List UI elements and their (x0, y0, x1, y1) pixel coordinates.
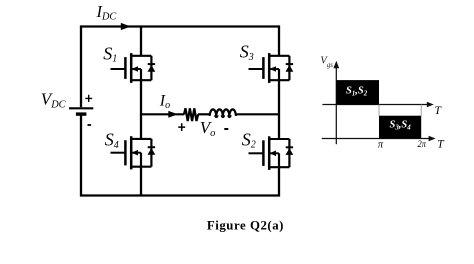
transistor S1 gate lead (111, 68, 126, 70)
wire left leg S1 source to S4 drain (140, 80, 142, 139)
pulse S3,S4 bar (379, 116, 421, 139)
transistor S2 body arrow line (269, 152, 279, 154)
waveform upper T axis (322, 104, 428, 106)
svg-text:2π: 2π (418, 139, 427, 150)
diode of S2 triangle (286, 148, 294, 155)
waveform upper T axis arrowhead (427, 102, 434, 107)
diode of S3 cathode bar (286, 63, 293, 65)
transistor S2 gate lead (249, 152, 264, 154)
transistor S1 channel bar (130, 53, 133, 83)
inductor L lower loops (215, 115, 231, 117)
diode of S4 cathode bar (148, 146, 155, 148)
transistor S2 source tap (278, 153, 280, 167)
transistor S4 channel bar (130, 136, 133, 169)
wire inductor to right leg (236, 113, 279, 115)
label minus of Vo (224, 128, 228, 130)
battery VDC long plate (69, 107, 93, 109)
transistor S3 source tap (278, 69, 280, 80)
wire resistor to inductor (198, 113, 210, 115)
wire right leg S3 source to S2 drain (278, 80, 280, 139)
diode of S3 triangle (286, 65, 294, 72)
pulse S1,S2 bar (336, 80, 379, 104)
waveform lower T axis (322, 138, 430, 140)
transistor S3 drain edge (269, 55, 289, 57)
arrow IDC on top wire (121, 23, 131, 30)
transistor S4 drain edge (131, 138, 151, 140)
wire left leg S4 source to bottom (140, 167, 142, 196)
transistor S1 gate bar (124, 57, 127, 79)
battery VDC short plate (76, 112, 87, 115)
wire bottom rail with left and right risers (81, 114, 279, 196)
transistor S3 source edge (269, 79, 289, 81)
transistor S4 gate lead (111, 152, 126, 154)
transistor S4 body arrowhead (132, 150, 139, 156)
svg-text:π: π (378, 139, 384, 150)
transistor S3 gate lead (249, 68, 264, 70)
wire load branch left (141, 113, 184, 115)
wire left leg S1 drain (140, 27, 142, 56)
diode of S4 branch (150, 139, 152, 167)
node 2pi dropline (420, 105, 422, 116)
inductor L humps (210, 109, 236, 116)
transistor S1 body arrowhead (132, 66, 139, 72)
transistor S2 body arrowhead (270, 151, 277, 157)
diode of S2 cathode bar (286, 146, 293, 148)
waveform lower T axis arrowhead (429, 136, 436, 141)
diode of S1 triangle (148, 65, 156, 72)
transistor S2 source edge (269, 166, 289, 168)
diode of S1 cathode bar (148, 63, 155, 65)
waveform Vgs axis vertical (335, 66, 337, 144)
svg-text:Figure Q2(a): Figure Q2(a) (207, 219, 284, 233)
arrow Io on load wire (168, 111, 178, 118)
transistor S1 drain edge (131, 55, 151, 57)
transistor S3 gate bar (262, 57, 265, 79)
transistor S4 source edge (131, 166, 151, 168)
transistor S2 channel bar (268, 136, 271, 170)
transistor S2 gate bar (262, 140, 265, 166)
transistor S3 body arrow line (269, 68, 279, 70)
transistor S1 body arrow line (131, 68, 141, 70)
battery plus sign (85, 95, 92, 102)
transistor S4 gate bar (124, 140, 127, 165)
diode of S1 branch (150, 56, 152, 80)
transistor S1 source tap (140, 69, 142, 80)
transistor S3 channel bar (268, 53, 271, 83)
resistor R load zigzag (184, 108, 198, 121)
transistor S4 body arrow line (131, 152, 141, 154)
wire top rail with left and right drops (81, 27, 279, 108)
transistor S3 body arrowhead (270, 66, 277, 72)
diode of S3 branch (288, 56, 290, 80)
transistor S2 drain edge (269, 138, 289, 140)
diode of S2 branch (288, 139, 290, 167)
waveform Vgs axis arrowhead (333, 61, 339, 68)
transistor S4 source tap (140, 153, 142, 167)
transistor S1 source edge (131, 79, 151, 81)
label plus of Vo (178, 123, 185, 131)
battery minus sign (88, 124, 92, 126)
diode of S4 triangle (148, 148, 156, 155)
node pi dropline (378, 105, 380, 116)
